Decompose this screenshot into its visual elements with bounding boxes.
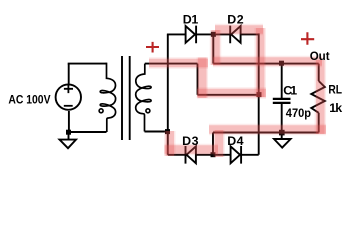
polarity plus right (red)	[301, 32, 314, 45]
wire minus node vertical	[212, 133, 214, 155]
node dot C1 bottom / ground	[279, 130, 285, 136]
polarity plus left (red)	[146, 42, 159, 53]
wire AC bottom vertical	[68, 111, 70, 132]
wire top rail to D1 anode	[167, 33, 186, 35]
capacitor C1 bottom stub	[281, 104, 283, 133]
wire AC top vertical	[68, 64, 70, 84]
highlight halo bus up to secondary bottom	[164, 131, 176, 156]
wire D1 cathode to plus node	[196, 33, 230, 35]
highlight halo bottom right rail	[209, 124, 326, 136]
highlight D3 row	[165, 145, 219, 154]
highlight halo D2 row	[215, 24, 263, 36]
wire vertical x258.7 (D2 anode / node / D4 cathode)	[258, 33, 260, 154]
highlight halo Out rail	[213, 56, 322, 68]
svg-text:Out: Out	[310, 49, 330, 63]
highlight x258.7 up through D2 anode	[256, 28, 265, 97]
wire secondary bottom	[145, 131, 168, 133]
highlight halo plus node vertical	[210, 30, 222, 65]
node dot Out / C1 top	[279, 61, 284, 66]
capacitor C1 top stub	[281, 64, 283, 98]
node dot AC bottom	[66, 130, 71, 135]
transformer T1 primary winding	[100, 63, 115, 132]
svg-text:D4: D4	[227, 134, 243, 148]
diode D4	[231, 146, 242, 164]
wire D3 row left	[168, 154, 186, 156]
highlight halo minus node vertical	[213, 130, 225, 157]
secondary phase dot	[146, 109, 150, 113]
resistor RL zigzag	[311, 81, 325, 113]
AC source plus marker	[64, 85, 73, 94]
highlight plus node vertical	[211, 30, 220, 65]
node dot secondary bottom	[165, 129, 170, 134]
highlight RL vertical	[316, 60, 325, 134]
svg-text:470p: 470p	[286, 106, 312, 120]
transformer T1 secondary winding	[136, 64, 151, 132]
highlight halo RL vertical	[315, 60, 327, 134]
highlight Out rail	[213, 57, 322, 66]
wire secondary top horizontal	[145, 63, 198, 65]
node dot plus (D1/D2 cathodes)	[211, 32, 216, 37]
ground right stub	[281, 133, 283, 140]
AC source V1	[56, 84, 81, 109]
svg-text:C1: C1	[283, 84, 297, 98]
node dot minus (D3/D4 anodes)	[211, 152, 216, 157]
wire D4 cathode to corner	[241, 154, 259, 156]
highlight D2 row	[215, 25, 263, 34]
ground left	[60, 140, 77, 149]
AC source minus marker	[64, 105, 73, 107]
transformer core	[122, 56, 130, 140]
wire top-left horizontal	[68, 63, 107, 65]
wire horizontal y94.8 to node	[198, 94, 259, 96]
diode D2	[230, 26, 240, 44]
highlight bus up to secondary bottom	[166, 131, 175, 156]
highlight bottom right rail	[209, 125, 326, 134]
svg-text:D2: D2	[227, 13, 244, 27]
highlight halo secondary top wire	[149, 57, 208, 69]
wire bus x167.8 (sec bottom to D1 anode / D3 cathode)	[167, 34, 169, 154]
svg-text:1k: 1k	[329, 101, 342, 115]
current highlight path core	[149, 28, 326, 157]
resistor RL bottom stub	[318, 113, 320, 133]
wire Out rail	[213, 63, 318, 65]
wire D3 anode to minus node	[196, 154, 231, 156]
wire vertical x197.5	[197, 64, 199, 95]
svg-text:D3: D3	[182, 134, 199, 148]
svg-text:D1: D1	[183, 13, 199, 27]
diode D3	[186, 146, 196, 164]
ground right	[274, 139, 291, 148]
wire bottom right rail	[213, 132, 319, 134]
capacitor C1 plates	[273, 99, 291, 103]
diode D1	[186, 26, 197, 44]
highlight y94.8 wire	[197, 89, 266, 98]
svg-text:AC 100V: AC 100V	[8, 92, 51, 106]
wire plus node vertical	[212, 34, 214, 63]
primary phase dot	[99, 109, 103, 113]
highlight secondary top wire	[149, 59, 208, 68]
wire D2 anode to corner	[241, 33, 259, 35]
highlight halo y94.8 wire	[197, 87, 266, 99]
wire left bottom rail	[69, 131, 107, 133]
highlight minus node vertical	[215, 130, 224, 157]
resistor RL top stub	[318, 64, 320, 81]
node dot AC2 (D2 anode / D4 cathode / sec top)	[257, 92, 262, 97]
svg-text:RL: RL	[328, 83, 342, 97]
highlight halo x258.7 up through D2 anode	[254, 28, 266, 97]
highlight vertical x197.5	[198, 58, 207, 99]
current highlight path halo (red translucent)	[149, 28, 326, 157]
highlight halo D3 row	[165, 144, 219, 156]
highlight halo vertical x197.5	[197, 58, 209, 99]
ground left stub	[68, 132, 70, 140]
